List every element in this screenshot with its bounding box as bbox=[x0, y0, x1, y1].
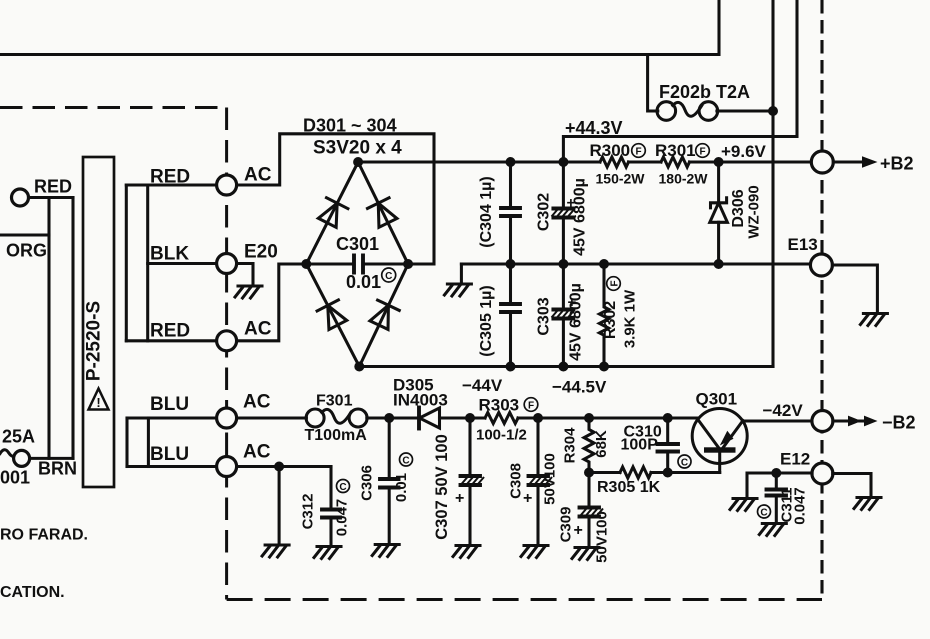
svg-text:F: F bbox=[699, 147, 705, 158]
svg-text:E12: E12 bbox=[780, 450, 810, 469]
wire ORG lead bbox=[0, 233, 49, 236]
boundary dashed left vertical bbox=[225, 108, 228, 600]
wire between R300 R301 bbox=[629, 160, 662, 163]
svg-text:C308: C308 bbox=[508, 463, 525, 499]
svg-text:001: 001 bbox=[0, 468, 30, 488]
svg-text:RO FARAD.: RO FARAD. bbox=[0, 527, 88, 544]
resistor R302 bbox=[599, 264, 608, 367]
terminal AC red top bbox=[217, 175, 237, 195]
svg-text:F: F bbox=[610, 280, 621, 286]
node bridge top bbox=[353, 157, 363, 167]
boundary dashed bottom bbox=[227, 598, 822, 601]
svg-text:C302: C302 bbox=[536, 193, 553, 231]
resistor R304 bbox=[584, 418, 594, 473]
wire edge squiggle bbox=[0, 450, 14, 456]
wire Q301 to -B2 bbox=[743, 419, 812, 422]
wire BRN lead bbox=[30, 457, 73, 460]
wire +44.3V rail bbox=[358, 160, 600, 163]
wire secondary bracket outer bbox=[125, 185, 128, 341]
svg-text:0.047: 0.047 bbox=[334, 499, 351, 537]
svg-text:C: C bbox=[681, 458, 688, 469]
svg-text:R304: R304 bbox=[562, 427, 579, 464]
transistor Q301 bbox=[692, 409, 747, 473]
svg-text:WZ-090: WZ-090 bbox=[746, 185, 763, 238]
svg-text:C301: C301 bbox=[336, 234, 379, 254]
node C304 top bbox=[506, 157, 516, 167]
capacitor C302 electrolytic bbox=[552, 162, 575, 264]
svg-text:P-2520-S: P-2520-S bbox=[84, 301, 105, 381]
wire R305 to C310 bottom bbox=[651, 471, 668, 474]
capacitor C309 electrolytic bbox=[580, 473, 604, 547]
svg-text:RED: RED bbox=[34, 177, 72, 197]
node C303 bottom bbox=[558, 362, 568, 372]
svg-text:F: F bbox=[528, 401, 534, 412]
wire R304 to R305 bbox=[589, 471, 620, 474]
terminal RED primary lead bbox=[12, 189, 29, 206]
ground E12 right bbox=[854, 498, 881, 510]
wire fuse to -B vertical bbox=[717, 109, 773, 112]
label C mark C312 bbox=[337, 480, 350, 494]
wire E20 ground tap bbox=[237, 264, 253, 286]
wire top off-page line bbox=[0, 0, 719, 55]
capacitor C301 bbox=[306, 256, 408, 273]
label F mark R302 bbox=[607, 277, 621, 291]
diode D304 lower-right bbox=[368, 300, 399, 330]
svg-text:100P: 100P bbox=[621, 437, 659, 454]
svg-text:C306: C306 bbox=[359, 465, 376, 501]
svg-text:−B2: −B2 bbox=[882, 413, 916, 433]
resistor R305 bbox=[620, 467, 651, 478]
svg-text:100-1/2: 100-1/2 bbox=[476, 427, 527, 444]
node bridge bottom bbox=[354, 362, 364, 372]
wire +B2 arrow bbox=[833, 156, 877, 168]
svg-text:C: C bbox=[402, 456, 409, 467]
label C mark C301 bbox=[382, 268, 396, 282]
wire BLU bracket outer bbox=[125, 418, 128, 467]
svg-text:45V 6800µ: 45V 6800µ bbox=[568, 283, 585, 361]
svg-text:AC: AC bbox=[244, 165, 272, 186]
svg-text:25A: 25A bbox=[2, 427, 35, 447]
wire mid rail ground tap bbox=[460, 264, 463, 283]
terminal +B2 bbox=[811, 151, 833, 173]
svg-text:C: C bbox=[339, 482, 346, 493]
capacitor C305 bbox=[501, 264, 520, 367]
terminal -B2 bbox=[812, 411, 833, 432]
node R302 top bbox=[599, 259, 609, 269]
ground E20 bbox=[235, 286, 262, 298]
svg-text:0.01: 0.01 bbox=[393, 473, 410, 502]
svg-text:−44.5V: −44.5V bbox=[552, 378, 607, 397]
label F mark R300 bbox=[632, 144, 646, 158]
svg-text:+9.6V: +9.6V bbox=[721, 142, 767, 161]
wire E13 to ground bbox=[832, 265, 877, 312]
svg-text:50V100: 50V100 bbox=[594, 511, 611, 563]
terminal E13 bbox=[810, 254, 832, 276]
diode D301 upper-left bbox=[317, 198, 348, 228]
node C305 top bbox=[506, 259, 516, 269]
svg-text:R302: R302 bbox=[602, 301, 619, 339]
svg-text:S3V20 x 4: S3V20 x 4 bbox=[313, 138, 402, 159]
wire primary vertical 2 bbox=[71, 198, 74, 459]
capacitor C310 bbox=[658, 418, 679, 473]
wire RED secondary bottom bbox=[126, 339, 226, 342]
node R304 top bbox=[584, 413, 594, 423]
wire BLU rail to fuse bbox=[227, 416, 307, 419]
svg-text:BLU: BLU bbox=[150, 444, 189, 465]
svg-text:T100mA: T100mA bbox=[305, 427, 368, 444]
wire BLK secondary bbox=[148, 262, 227, 265]
wire +44.3V off-page vertical bbox=[563, 0, 797, 162]
svg-text:+B2: +B2 bbox=[880, 154, 914, 174]
terminal AC red bottom bbox=[217, 331, 237, 351]
wire -B2 arrow bbox=[833, 416, 878, 427]
svg-text:F: F bbox=[635, 147, 641, 158]
wire AC2 route to bridge left node bbox=[227, 264, 307, 341]
svg-text:180-2W: 180-2W bbox=[659, 171, 709, 187]
label F mark R301 bbox=[696, 144, 710, 158]
node C310 bottom bbox=[663, 468, 673, 478]
node C305 bottom bbox=[506, 362, 516, 372]
terminal E12 bbox=[812, 463, 833, 484]
wire Q301 emitter to node bbox=[668, 471, 720, 474]
wire R303 to Q301 bbox=[518, 416, 699, 419]
wire E12 right to ground bbox=[833, 474, 871, 497]
svg-text:C312: C312 bbox=[300, 494, 317, 530]
wire fuse to D305 bbox=[367, 416, 419, 419]
svg-text:C307 50V 100: C307 50V 100 bbox=[433, 434, 451, 540]
svg-text:C309: C309 bbox=[558, 507, 575, 543]
node C306 tap bbox=[384, 413, 394, 423]
svg-text:AC: AC bbox=[243, 392, 271, 413]
svg-text:68K: 68K bbox=[593, 430, 610, 458]
ground C311 bbox=[759, 524, 786, 536]
svg-text:CATION.: CATION. bbox=[0, 584, 65, 601]
svg-text:+: + bbox=[455, 490, 464, 507]
node R302 bottom bbox=[599, 362, 609, 372]
svg-text:F202b T2A: F202b T2A bbox=[659, 82, 750, 102]
svg-text:D306: D306 bbox=[730, 189, 747, 227]
wire AC blu bottom ground drop bbox=[278, 467, 281, 545]
label C mark C306 bbox=[400, 453, 413, 467]
wire mid rail bbox=[461, 262, 810, 265]
svg-text:F301: F301 bbox=[316, 393, 353, 410]
svg-text:0.01: 0.01 bbox=[346, 272, 381, 292]
capacitor C308 electrolytic bbox=[529, 418, 553, 545]
wire RED secondary top bbox=[126, 183, 226, 186]
terminal BRN primary lead bbox=[14, 450, 30, 466]
resistor R301 bbox=[661, 157, 690, 167]
diode D306 zener bbox=[710, 162, 728, 264]
svg-text:R305 1K: R305 1K bbox=[597, 479, 661, 496]
ground C312 bbox=[314, 547, 341, 559]
label C mark C310 bbox=[678, 455, 691, 469]
diode D302 upper-right bbox=[367, 198, 398, 228]
ground C307 bbox=[453, 546, 480, 558]
fuse F202b bbox=[657, 102, 718, 121]
wire -B feed vertical bbox=[771, 0, 774, 367]
svg-text:−42V: −42V bbox=[763, 401, 804, 420]
svg-text:BRN: BRN bbox=[38, 459, 77, 479]
ground C306 bbox=[372, 545, 399, 557]
node C303 top bbox=[558, 259, 568, 269]
svg-text:(C305 1µ): (C305 1µ) bbox=[478, 285, 495, 356]
ground C309 bbox=[572, 548, 599, 560]
node D306 bottom bbox=[714, 259, 724, 269]
svg-text:BLK: BLK bbox=[150, 244, 189, 265]
capacitor C303 electrolytic bbox=[552, 264, 575, 367]
node bridge right bbox=[403, 259, 413, 269]
svg-text:AC: AC bbox=[244, 319, 272, 340]
svg-text:+: + bbox=[523, 490, 532, 507]
svg-text:AC: AC bbox=[243, 442, 271, 463]
node C302 top bbox=[558, 157, 568, 167]
diode D305 bbox=[419, 408, 440, 429]
ground C308 bbox=[521, 546, 548, 558]
terminal AC blu top bbox=[217, 408, 237, 428]
bridge rectifier D301-304 diamond bbox=[306, 162, 408, 367]
terminal E20 bbox=[217, 254, 237, 274]
boundary dashed right vertical bbox=[820, 0, 823, 600]
terminal AC blu bottom bbox=[217, 457, 237, 477]
svg-text:RED: RED bbox=[150, 167, 190, 188]
capacitor C306 bbox=[380, 418, 399, 544]
label C mark C311 bbox=[758, 505, 771, 519]
node C308 tap bbox=[533, 413, 543, 423]
capacitor C311 bbox=[767, 473, 787, 523]
ground mid rail bbox=[444, 284, 471, 296]
resistor R300 bbox=[600, 157, 629, 167]
node AC blu bottom tap bbox=[274, 462, 284, 472]
wire BLU top bbox=[127, 416, 227, 419]
svg-text:R300: R300 bbox=[590, 141, 631, 160]
wire AC1 route to bridge right node bbox=[227, 134, 434, 264]
svg-text:+: + bbox=[574, 522, 583, 539]
svg-text:150-2W: 150-2W bbox=[596, 171, 646, 187]
wire -44.5V rail bbox=[359, 365, 773, 368]
capacitor C312 bbox=[322, 467, 340, 546]
capacitor C304 bbox=[501, 162, 520, 264]
node C310 top bbox=[663, 413, 673, 423]
svg-text:−44V: −44V bbox=[462, 376, 503, 395]
fuse F301 bbox=[306, 409, 367, 427]
svg-text:0.047: 0.047 bbox=[792, 487, 809, 525]
svg-text:IN4003: IN4003 bbox=[393, 391, 448, 410]
wire RED lead bbox=[29, 196, 74, 199]
svg-text:R303: R303 bbox=[479, 396, 520, 415]
node C311 top bbox=[771, 468, 781, 478]
node D306 top bbox=[714, 157, 724, 167]
boundary dashed top-left bbox=[0, 106, 227, 109]
capacitor C307 electrolytic bbox=[461, 418, 485, 545]
node bridge left bbox=[301, 259, 311, 269]
svg-text:(C304 1µ): (C304 1µ) bbox=[478, 176, 495, 247]
wire BLU bottom bbox=[127, 465, 331, 468]
wire E12 left to ground bbox=[747, 473, 812, 497]
svg-text:+44.3V: +44.3V bbox=[565, 118, 623, 138]
svg-text:C303: C303 bbox=[536, 297, 553, 335]
wire BLU bracket inner bbox=[147, 418, 150, 467]
connector P-2520-S bbox=[83, 157, 114, 487]
svg-text:ORG: ORG bbox=[6, 241, 47, 261]
wire primary vertical 1 bbox=[47, 198, 50, 459]
node C307 tap bbox=[465, 413, 475, 423]
ground E12 left bbox=[730, 499, 757, 511]
svg-text:R301: R301 bbox=[655, 141, 696, 160]
wire fuse branch bbox=[648, 55, 658, 112]
wire +9.6V rail to +B2 bbox=[690, 160, 813, 163]
svg-text:RED: RED bbox=[150, 321, 190, 342]
label F mark R303 bbox=[524, 398, 538, 412]
ground E13 bbox=[860, 314, 887, 326]
svg-text:!: ! bbox=[96, 395, 100, 410]
diode D303 lower-left bbox=[317, 300, 348, 331]
svg-text:E20: E20 bbox=[244, 242, 278, 263]
svg-text:Q301: Q301 bbox=[696, 390, 738, 409]
node fuse junction bbox=[768, 106, 778, 116]
svg-text:3.9K 1W: 3.9K 1W bbox=[622, 289, 639, 348]
svg-text:E13: E13 bbox=[788, 235, 818, 254]
svg-text:D301 ~ 304: D301 ~ 304 bbox=[303, 116, 397, 136]
svg-text:50V100: 50V100 bbox=[542, 453, 559, 505]
node R304 bottom bbox=[584, 468, 594, 478]
svg-text:C: C bbox=[385, 271, 392, 282]
wire secondary bracket inner bbox=[146, 185, 149, 341]
wire D305 to R303 bbox=[440, 416, 486, 419]
svg-text:C: C bbox=[760, 508, 767, 519]
ground AC blu bottom bbox=[262, 545, 289, 557]
svg-text:45V 6800µ: 45V 6800µ bbox=[572, 178, 589, 256]
resistor R303 bbox=[485, 413, 518, 424]
svg-text:BLU: BLU bbox=[150, 394, 189, 415]
